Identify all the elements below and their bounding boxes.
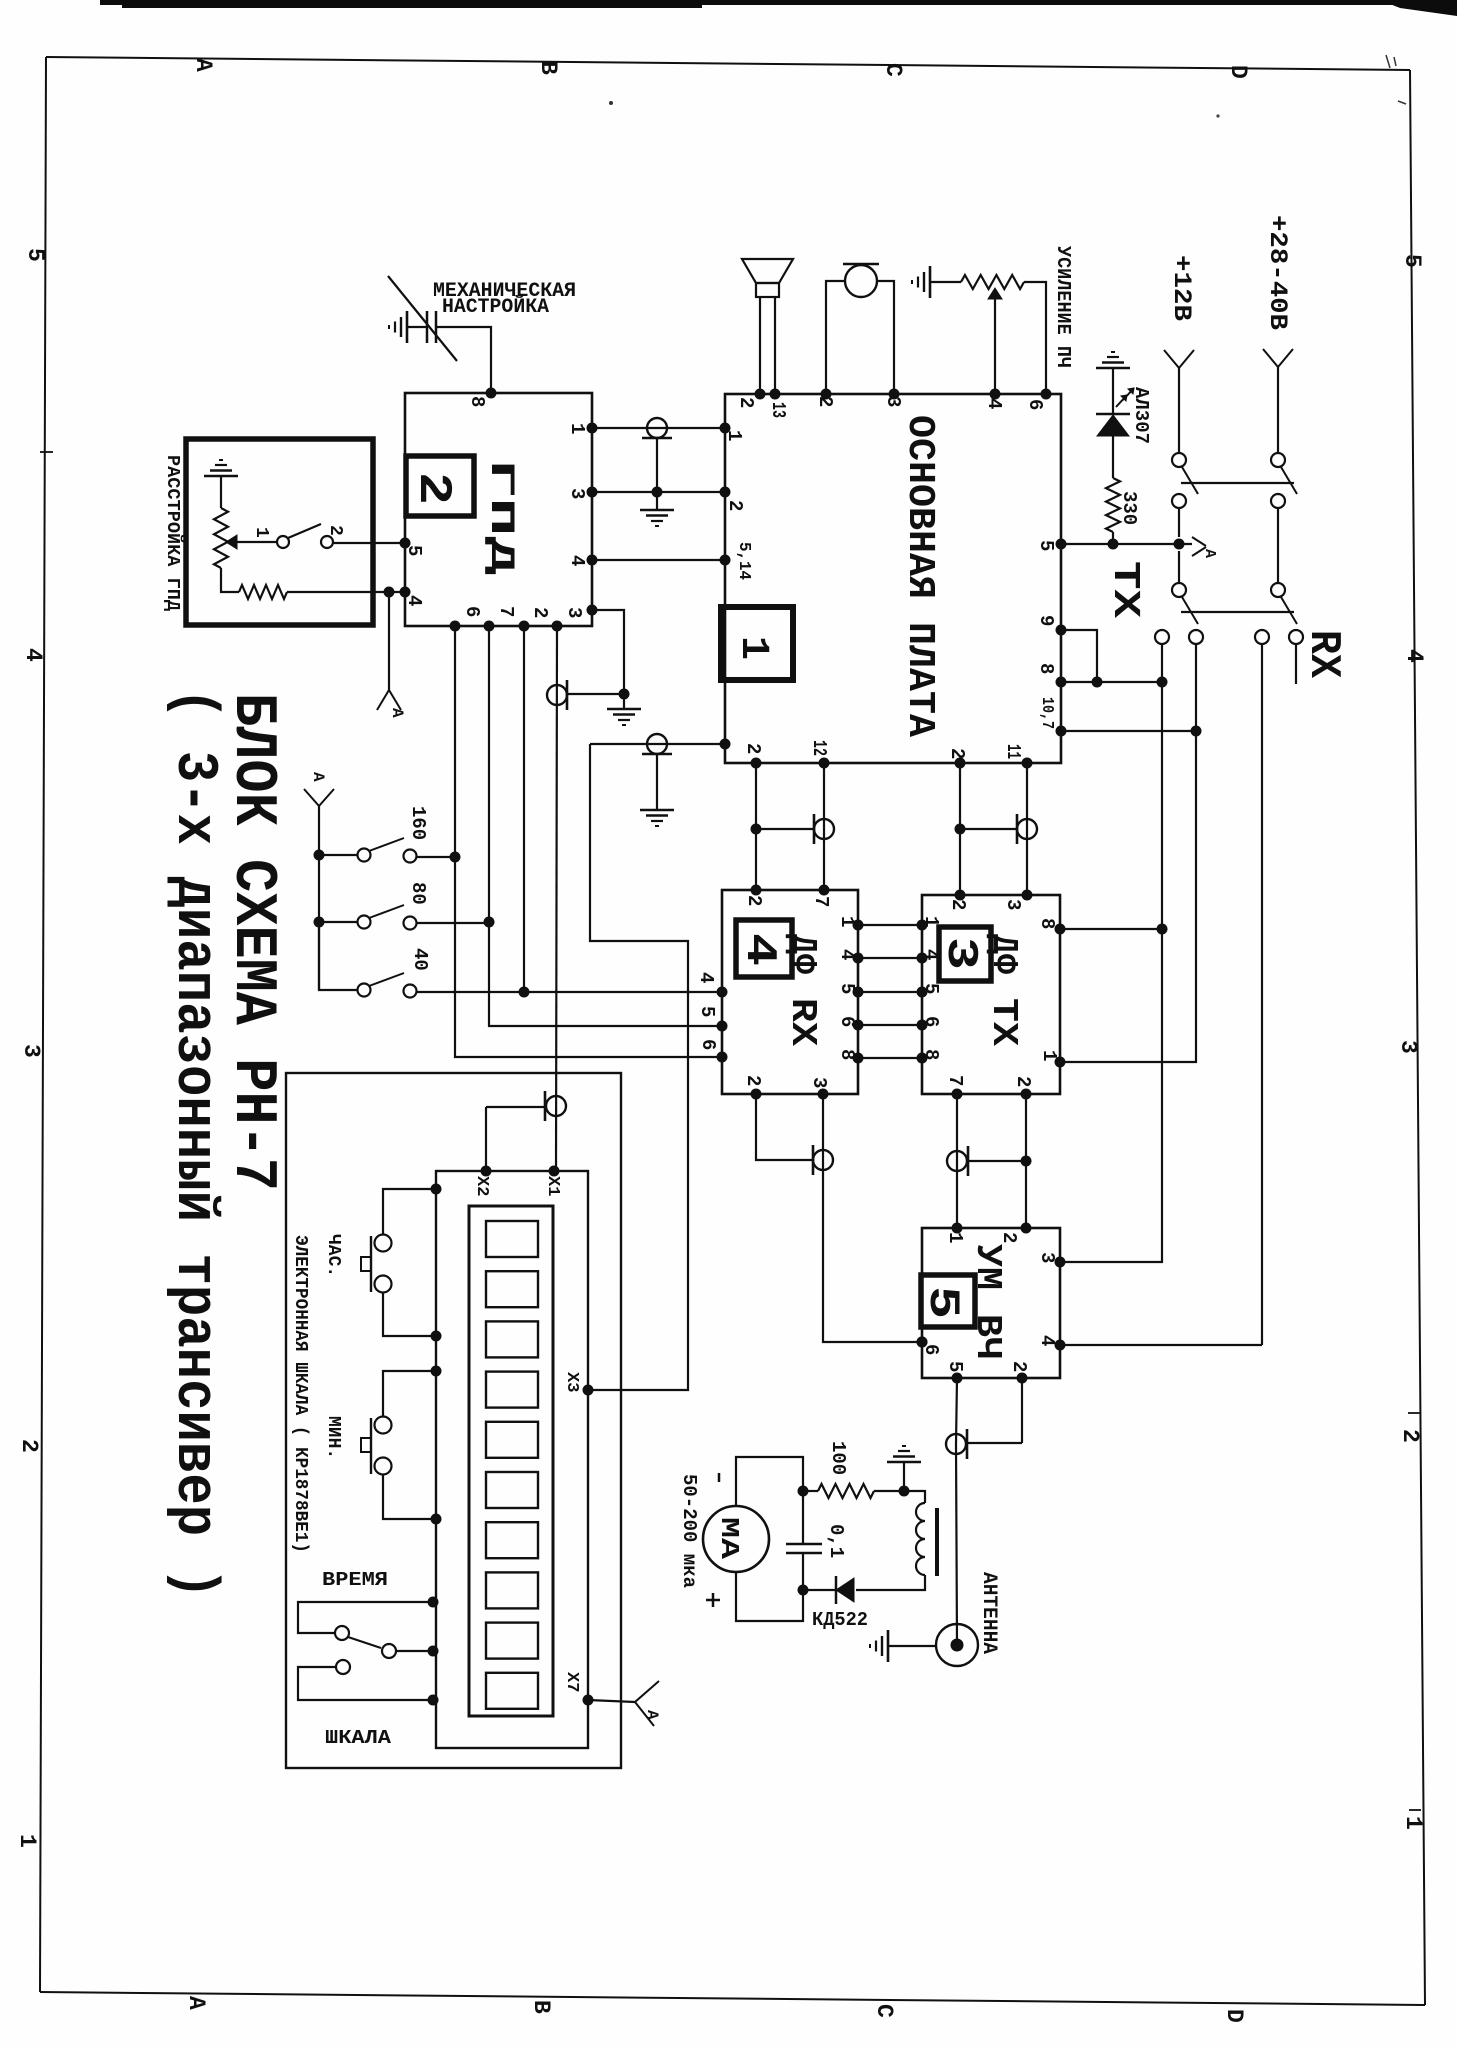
svg-text:А: А xyxy=(190,58,216,72)
svg-text:ДФ: ДФ xyxy=(782,934,823,974)
svg-text:5: 5 xyxy=(917,1286,967,1319)
svg-text:2: 2 xyxy=(735,397,757,408)
svg-text:1: 1 xyxy=(1038,1050,1060,1061)
svg-text:D: D xyxy=(1221,2009,1247,2023)
svg-text:Х7: Х7 xyxy=(562,1672,581,1692)
svg-text:МИН.: МИН. xyxy=(323,1416,343,1459)
svg-text:2: 2 xyxy=(407,472,459,505)
svg-text:Х2: Х2 xyxy=(472,1176,491,1196)
svg-text:( 3-х диапазонный трансивер ): ( 3-х диапазонный трансивер ) xyxy=(161,688,226,1599)
svg-text:3: 3 xyxy=(1395,1040,1421,1054)
svg-text:ЧАС.: ЧАС. xyxy=(323,1234,343,1277)
svg-text:А: А xyxy=(388,708,406,718)
svg-text:ГПД: ГПД xyxy=(481,459,519,575)
svg-text:1: 1 xyxy=(730,636,775,660)
svg-text:ШКАЛА: ШКАЛА xyxy=(325,1727,392,1749)
svg-text:2: 2 xyxy=(946,748,968,759)
svg-text:160: 160 xyxy=(407,806,429,840)
svg-text:4: 4 xyxy=(1401,649,1427,663)
svg-text:12: 12 xyxy=(808,740,830,756)
svg-text:80: 80 xyxy=(407,882,429,905)
svg-text:4: 4 xyxy=(20,648,46,662)
svg-text:6: 6 xyxy=(697,1039,719,1050)
svg-text:2: 2 xyxy=(724,500,746,511)
svg-text:ЭЛЕКТРОННАЯ ШКАЛА ( КР1878ВЕ1: ЭЛЕКТРОННАЯ ШКАЛА ( КР1878ВЕ1) xyxy=(290,1235,310,1553)
svg-text:5: 5 xyxy=(1035,540,1057,551)
svg-text:11: 11 xyxy=(1002,744,1024,759)
svg-text:УСИЛЕНИЕ ПЧ: УСИЛЕНИЕ ПЧ xyxy=(1052,246,1074,368)
svg-text:ТХ: ТХ xyxy=(983,998,1024,1046)
svg-text:РАССТРОЙКА ГПД: РАССТРОЙКА ГПД xyxy=(162,455,184,611)
svg-text:1: 1 xyxy=(723,430,745,441)
svg-text:ОСНОВНАЯ ПЛАТА: ОСНОВНАЯ ПЛАТА xyxy=(898,415,941,737)
svg-text:1: 1 xyxy=(1400,1816,1426,1830)
svg-text:+12В: +12В xyxy=(1167,255,1196,321)
svg-text:1: 1 xyxy=(566,423,588,434)
svg-text:2: 2 xyxy=(998,1232,1020,1243)
svg-text:ТХ: ТХ xyxy=(1103,561,1146,618)
svg-text:9: 9 xyxy=(1035,615,1057,626)
svg-text:4: 4 xyxy=(983,398,1005,409)
svg-text:4: 4 xyxy=(1036,1335,1058,1346)
svg-text:3: 3 xyxy=(18,1044,44,1058)
svg-text:5: 5 xyxy=(403,545,425,556)
svg-text:330: 330 xyxy=(1118,491,1140,525)
svg-text:6: 6 xyxy=(461,606,483,617)
svg-text:УМ: УМ xyxy=(967,1244,1008,1290)
svg-text:В: В xyxy=(528,2000,554,2014)
svg-text:КД522: КД522 xyxy=(812,1609,868,1631)
svg-text:С: С xyxy=(880,63,906,77)
svg-text:А: А xyxy=(1201,549,1218,558)
svg-text:6: 6 xyxy=(920,1344,942,1355)
svg-text:В: В xyxy=(535,61,561,75)
svg-text:10,7: 10,7 xyxy=(1037,697,1056,729)
svg-text:8: 8 xyxy=(836,1049,858,1060)
svg-text:2: 2 xyxy=(742,1075,764,1086)
svg-text:5: 5 xyxy=(836,983,858,994)
svg-text:7: 7 xyxy=(810,896,832,907)
svg-text:3: 3 xyxy=(1002,899,1024,910)
svg-text:БЛОК СХЕМА РН-7: БЛОК СХЕМА РН-7 xyxy=(218,693,286,1191)
svg-text:А: А xyxy=(643,1710,661,1720)
svg-text:50-200 мка: 50-200 мка xyxy=(678,1474,700,1588)
svg-text:2: 2 xyxy=(16,1439,42,1453)
svg-text:40: 40 xyxy=(409,948,431,971)
svg-text:100: 100 xyxy=(827,1441,849,1475)
svg-text:4: 4 xyxy=(734,933,784,966)
svg-text:+28-40В: +28-40В xyxy=(1263,215,1292,330)
svg-text:2: 2 xyxy=(742,743,764,754)
svg-text:4: 4 xyxy=(566,555,588,566)
svg-text:7: 7 xyxy=(944,1075,966,1086)
svg-text:ВЧ: ВЧ xyxy=(967,1314,1008,1360)
svg-text:RX: RX xyxy=(1298,630,1348,679)
svg-text:5: 5 xyxy=(1399,254,1425,268)
svg-text:13: 13 xyxy=(767,402,789,418)
svg-text:2: 2 xyxy=(947,899,969,910)
svg-text:Х1: Х1 xyxy=(543,1176,562,1196)
svg-text:5: 5 xyxy=(696,1006,718,1017)
svg-text:3: 3 xyxy=(566,488,588,499)
svg-text:С: С xyxy=(871,2004,897,2018)
svg-text:ДФ: ДФ xyxy=(983,934,1024,974)
svg-text:МА: МА xyxy=(714,1517,744,1560)
svg-text:5: 5 xyxy=(22,248,48,262)
svg-text:2: 2 xyxy=(1012,1076,1034,1087)
svg-text:7: 7 xyxy=(495,606,517,617)
svg-text:2: 2 xyxy=(529,607,551,618)
svg-text:6: 6 xyxy=(836,1016,858,1027)
svg-text:А: А xyxy=(309,772,327,782)
svg-text:1: 1 xyxy=(14,1834,40,1848)
svg-text:АНТЕННА: АНТЕННА xyxy=(977,1572,1000,1654)
svg-text:ВРЕМЯ: ВРЕМЯ xyxy=(322,1569,388,1591)
svg-text:2: 2 xyxy=(1008,1361,1030,1372)
svg-text:2: 2 xyxy=(743,895,765,906)
svg-text:8: 8 xyxy=(466,396,488,407)
svg-text:5: 5 xyxy=(944,1361,966,1372)
svg-text:3: 3 xyxy=(808,1077,830,1088)
svg-text:АЛ307: АЛ307 xyxy=(1130,387,1152,444)
svg-text:0,1: 0,1 xyxy=(825,1524,847,1558)
svg-text:3: 3 xyxy=(563,607,585,618)
svg-text:4: 4 xyxy=(836,949,858,960)
svg-text:1: 1 xyxy=(251,527,271,538)
svg-text:3: 3 xyxy=(1036,1252,1058,1263)
svg-text:4: 4 xyxy=(403,595,425,606)
svg-text:8: 8 xyxy=(1036,918,1058,929)
svg-text:2: 2 xyxy=(325,525,345,536)
svg-text:А: А xyxy=(183,1996,209,2010)
svg-text:2: 2 xyxy=(814,396,836,407)
svg-text:D: D xyxy=(1225,65,1251,79)
svg-text:3: 3 xyxy=(882,396,904,407)
svg-text:1: 1 xyxy=(836,916,858,927)
svg-text:3: 3 xyxy=(935,937,985,970)
svg-text:8: 8 xyxy=(1035,663,1057,674)
svg-text:4: 4 xyxy=(695,972,717,983)
svg-text:Х3: Х3 xyxy=(562,1372,581,1392)
svg-text:5,14: 5,14 xyxy=(734,542,753,580)
svg-text:1: 1 xyxy=(944,1232,966,1243)
svg-text:2: 2 xyxy=(1397,1429,1423,1443)
svg-text:НАСТРОЙКА: НАСТРОЙКА xyxy=(442,295,549,319)
svg-text:RX: RX xyxy=(782,998,823,1046)
svg-text:6: 6 xyxy=(1024,399,1046,410)
